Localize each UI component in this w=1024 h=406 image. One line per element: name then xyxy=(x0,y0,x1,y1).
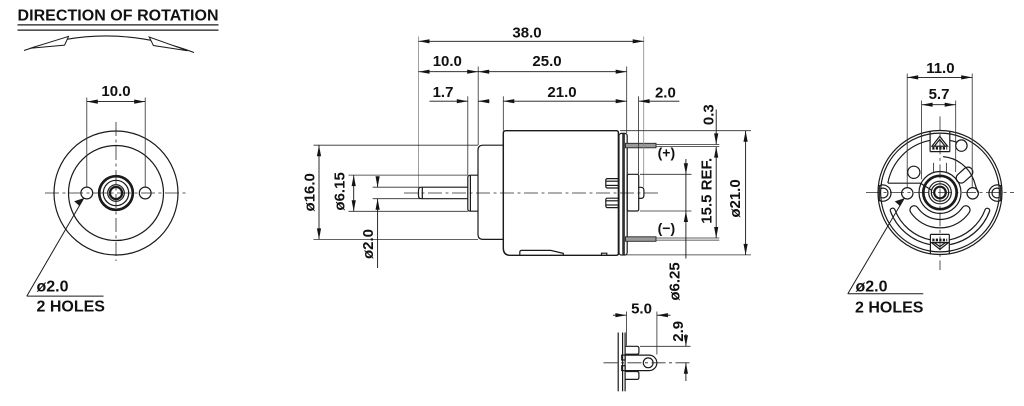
bottom key tab xyxy=(932,240,949,249)
dimension dia2.0 shaft xyxy=(360,177,420,268)
dimension dia6.25 xyxy=(640,159,692,301)
centerline xyxy=(404,192,660,194)
motor face outer circle xyxy=(54,131,178,255)
svg-text:ø2.0: ø2.0 xyxy=(37,279,69,296)
dimension 11.0 xyxy=(907,60,972,187)
end cap xyxy=(478,145,503,239)
svg-text:ø21.0: ø21.0 xyxy=(727,179,744,217)
svg-text:2 HOLES: 2 HOLES xyxy=(855,299,924,316)
svg-text:0.3: 0.3 xyxy=(701,104,718,125)
extension line shaft tip xyxy=(418,37,420,187)
dimension 15.5 REF xyxy=(698,147,716,238)
rear bearing boss xyxy=(627,174,639,211)
terminal plus xyxy=(626,143,657,148)
svg-text:ø6.25: ø6.25 xyxy=(667,262,684,300)
terminal hole xyxy=(643,358,653,368)
end cap circle xyxy=(69,146,164,241)
svg-text:2.0: 2.0 xyxy=(655,85,676,102)
groove band lower-left xyxy=(890,208,931,244)
svg-text:2.9: 2.9 xyxy=(670,321,687,342)
cover seam line 2 xyxy=(623,134,625,255)
svg-text:(−): (−) xyxy=(658,220,676,236)
svg-text:10.0: 10.0 xyxy=(101,83,130,100)
dimension dia16.0 xyxy=(301,145,478,239)
dimension 0.3 xyxy=(701,104,718,144)
svg-text:ø2.0: ø2.0 xyxy=(856,279,888,296)
bearing boss ring xyxy=(99,176,133,210)
brush clip bottom xyxy=(606,198,619,207)
mounting hole right xyxy=(139,187,151,199)
slot upper-right xyxy=(954,165,975,185)
shaft end xyxy=(934,187,946,199)
shaft chamfer xyxy=(421,187,423,198)
leader o2.0 2 HOLES (rear view) xyxy=(848,198,924,316)
terminal plus extension lines xyxy=(656,144,719,146)
dimension 10.0 (front view) xyxy=(87,83,145,187)
extension line cap face xyxy=(477,67,479,146)
bearing ring inner xyxy=(103,180,128,205)
rear pip xyxy=(639,187,644,198)
centerline horizontal xyxy=(45,192,188,194)
bearing ring xyxy=(929,181,952,204)
svg-text:11.0: 11.0 xyxy=(926,60,954,77)
svg-text:21.0: 21.0 xyxy=(547,84,576,101)
svg-text:ø2.0: ø2.0 xyxy=(360,229,377,259)
extension line cover face xyxy=(626,67,628,134)
tab left notch bottom xyxy=(622,366,625,371)
svg-text:38.0: 38.0 xyxy=(512,25,541,42)
can bottom right notch xyxy=(602,253,607,255)
shaft ring xyxy=(931,184,948,201)
svg-text:ø16.0: ø16.0 xyxy=(301,173,318,211)
dimension 38.0 xyxy=(419,25,644,42)
upper-right panel arc xyxy=(943,157,978,193)
shaft xyxy=(419,187,468,199)
top notch xyxy=(930,131,950,151)
dimension 2.9 xyxy=(640,321,691,381)
motor can xyxy=(503,131,618,256)
dimension dia21.0 xyxy=(620,131,751,255)
panel arc right of notch xyxy=(950,140,957,142)
terminal tab xyxy=(625,355,657,371)
extension line front boss face xyxy=(467,96,469,175)
leader o2.0 2 HOLES (front view) xyxy=(27,198,105,316)
extension line can left xyxy=(502,96,504,130)
dimension 1.7 xyxy=(430,84,490,101)
shaft xyxy=(110,187,122,199)
centerline vertical xyxy=(939,116,941,270)
top key tab xyxy=(932,136,948,148)
terminal lower step xyxy=(625,372,639,380)
brush clip top xyxy=(606,179,619,188)
svg-text:25.0: 25.0 xyxy=(532,53,561,70)
right ear xyxy=(989,185,1001,201)
hole beside top notch xyxy=(956,140,967,151)
dimension 5.0 xyxy=(613,300,671,354)
svg-text:(+): (+) xyxy=(658,144,676,160)
upper-left panel arc xyxy=(888,140,930,183)
cover seam lines xyxy=(622,333,624,392)
boss key slot lines xyxy=(933,163,935,173)
dimension 25.0 xyxy=(478,53,627,72)
dimension dia6.15 xyxy=(332,172,468,211)
svg-text:15.5 REF.: 15.5 REF. xyxy=(698,158,715,224)
svg-text:5.7: 5.7 xyxy=(929,86,950,103)
svg-text:DIRECTION OF ROTATION: DIRECTION OF ROTATION xyxy=(18,8,219,25)
upper-left panel chord xyxy=(888,183,932,190)
can bottom vent xyxy=(520,250,564,255)
boss face inner line xyxy=(469,175,471,211)
bottom notch xyxy=(930,234,949,253)
extension line pip end xyxy=(643,37,645,188)
left ear xyxy=(879,185,891,201)
centerline horizontal xyxy=(866,192,1014,194)
center boss outer circle xyxy=(919,172,961,214)
shaft ring xyxy=(108,185,125,202)
cover seam line 1 xyxy=(622,134,624,255)
flange outer circle xyxy=(878,131,1002,255)
flange inner rim circle xyxy=(881,133,1000,252)
centerline vertical xyxy=(115,122,117,261)
dimension 21.0 xyxy=(503,84,626,101)
rotation arrow xyxy=(24,36,194,53)
dimension 2.0 xyxy=(639,85,680,102)
vent hole upper-left xyxy=(908,166,920,178)
svg-text:5.0: 5.0 xyxy=(631,300,652,317)
svg-text:2 HOLES: 2 HOLES xyxy=(37,299,106,316)
curved slot xyxy=(910,206,970,228)
center boss thick ring xyxy=(923,176,956,209)
dimension 10.0 (side view) xyxy=(419,53,479,72)
cover edge line xyxy=(617,333,619,392)
extension line rear boss face xyxy=(638,96,640,174)
terminal minus extension lines xyxy=(656,237,719,239)
svg-text:10.0: 10.0 xyxy=(433,53,462,70)
terminal minus xyxy=(626,237,657,242)
mounting hole left xyxy=(81,187,93,199)
detail centerline xyxy=(604,362,691,364)
rear cover plate xyxy=(619,133,627,255)
dimension 5.7 xyxy=(922,86,956,179)
svg-text:ø6.15: ø6.15 xyxy=(332,172,349,210)
svg-text:1.7: 1.7 xyxy=(433,84,454,101)
mounting hole left xyxy=(902,188,913,199)
front bearing boss xyxy=(468,175,478,211)
tab left notch top xyxy=(622,355,625,360)
terminal upper step xyxy=(625,346,639,354)
title DIRECTION OF ROTATION xyxy=(18,8,219,30)
groove band lower-right xyxy=(949,208,990,244)
mounting hole right xyxy=(967,188,978,199)
